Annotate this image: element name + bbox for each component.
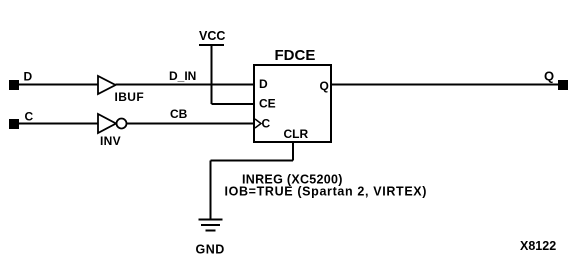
buffer IBUF: [98, 76, 116, 94]
svg-text:C: C: [25, 110, 34, 124]
wire D_IN (IBUF output to FDCE D pin): [116, 84, 255, 86]
pad Q (output terminal square): [558, 80, 568, 90]
inverter INV: [98, 114, 116, 133]
wire CLR horizontal: [211, 160, 294, 162]
wire VCC down: [211, 45, 213, 104]
pad D (input terminal square): [9, 80, 19, 90]
svg-text:CE: CE: [259, 97, 276, 111]
wire Q output: [331, 84, 558, 86]
svg-text:CB: CB: [170, 107, 188, 121]
wire D pad to IBUF: [19, 84, 98, 86]
svg-text:GND: GND: [196, 243, 225, 257]
svg-text:Q: Q: [320, 79, 329, 93]
svg-text:D: D: [259, 77, 268, 91]
wire CLR down from box: [292, 142, 294, 161]
power VCC symbol: [199, 44, 224, 46]
svg-text:X8122: X8122: [520, 239, 556, 253]
svg-text:C: C: [262, 117, 271, 131]
wire VCC to CE pin: [212, 103, 255, 105]
wire CB (INV output to FDCE C pin): [127, 123, 255, 125]
svg-text:IBUF: IBUF: [115, 90, 145, 104]
svg-text:D_IN: D_IN: [169, 69, 196, 83]
svg-text:Q: Q: [544, 69, 554, 84]
svg-text:FDCE: FDCE: [275, 47, 316, 64]
wire C pad to INV: [19, 123, 98, 125]
pad C (input terminal square): [9, 119, 19, 129]
wire down to GND: [210, 161, 212, 220]
ground GND symbol: [199, 220, 223, 231]
svg-text:IOB=TRUE (Spartan 2, VIRTEX): IOB=TRUE (Spartan 2, VIRTEX): [225, 185, 428, 199]
svg-text:INV: INV: [100, 134, 121, 148]
svg-text:CLR: CLR: [284, 127, 309, 141]
flip-flop U1 FDCE body: [254, 65, 331, 142]
inverter bubble: [117, 119, 127, 129]
clock wedge at pin C: [255, 119, 261, 128]
svg-text:VCC: VCC: [199, 29, 225, 43]
svg-text:D: D: [24, 70, 33, 84]
